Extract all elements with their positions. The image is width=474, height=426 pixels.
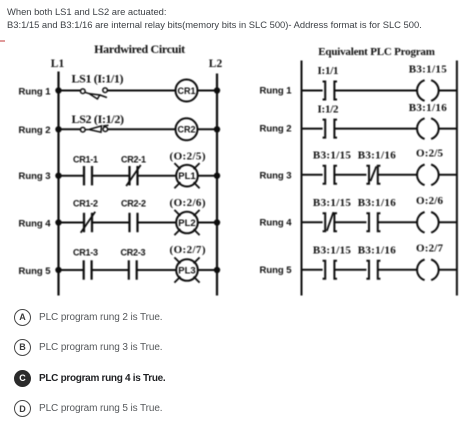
wire rung3 CR2-1 to PL1 xyxy=(138,175,177,177)
label I:1/1 xyxy=(318,65,339,77)
rung 5 label left xyxy=(19,266,52,277)
XIO contact B3:1/16 rung3 xyxy=(366,166,380,184)
limit switch LS1 xyxy=(81,88,108,99)
wire rung5 L1 to CR1-3 xyxy=(59,269,84,271)
title Hardwired Circuit xyxy=(94,42,185,56)
svg-text:B3:1/16: B3:1/16 xyxy=(358,150,397,162)
svg-text:I:1/2: I:1/2 xyxy=(318,104,340,116)
wire plc rung4 coil to rail xyxy=(439,221,457,223)
svg-text:B3:1/15: B3:1/15 xyxy=(313,150,352,162)
XIC contact B3:1/16 rung4 xyxy=(366,213,380,231)
wire rung3 PL1 to L2 xyxy=(198,175,217,177)
wire rung2 CR2 to L2 xyxy=(198,128,217,130)
XIO contact B3:1/15 rung4 xyxy=(323,212,337,231)
wire plc rung5 coil to rail xyxy=(439,269,457,271)
wire rung5 CR2-3 to PL3 xyxy=(137,269,177,271)
wire plc rung1 contact to coil xyxy=(334,90,417,92)
limit switch LS2 xyxy=(81,125,109,132)
wire rung4 L1 to CR1-2 xyxy=(59,222,85,224)
wire rung2 LS2 to CR2 xyxy=(108,128,176,130)
svg-text:Rung 5: Rung 5 xyxy=(19,266,52,277)
label B3:1/15 rung1 xyxy=(409,64,448,76)
wire plc rung4 contact1 to contact2 xyxy=(334,221,366,223)
junction dots rail L2 xyxy=(214,87,220,273)
label contact CR1-2 xyxy=(73,199,98,209)
svg-text:B3:1/16: B3:1/16 xyxy=(358,197,397,209)
contact CR2-1 NC xyxy=(126,165,141,186)
label B3:1/16 rung3 xyxy=(358,150,397,162)
rung 1 label left xyxy=(19,87,52,98)
XIC contact B3:1/15 rung3 xyxy=(323,166,337,184)
wire rung5 CR1-3 to CR2-3 xyxy=(92,269,129,271)
label O:2/5 xyxy=(416,148,444,160)
svg-text:B3:1/16: B3:1/16 xyxy=(358,245,397,257)
contact CR1-2 NC xyxy=(81,212,96,233)
svg-text:O:2/5: O:2/5 xyxy=(416,148,444,160)
wire plc rung5 contact2 to coil xyxy=(378,269,417,271)
wire rung4 CR1-2 to CR2-2 xyxy=(92,222,130,224)
svg-text:Rung 2: Rung 2 xyxy=(19,125,51,136)
wire rung3 CR1-1 to CR2-1 xyxy=(92,175,130,177)
svg-text:Equivalent PLC Program: Equivalent PLC Program xyxy=(318,46,434,58)
svg-text:(O:2/5): (O:2/5) xyxy=(170,150,206,162)
svg-text:CR2-2: CR2-2 xyxy=(121,199,146,209)
svg-text:CR1-3: CR1-3 xyxy=(73,248,98,258)
label B3:1/15 rung5 xyxy=(313,245,352,257)
svg-text:L1: L1 xyxy=(51,58,65,70)
wire plc rung5 rail to contact1 xyxy=(302,269,323,271)
label O:2/6 xyxy=(416,195,444,207)
relay coil CR1 xyxy=(176,80,198,102)
label B3:1/15 rung3 xyxy=(313,150,352,162)
svg-text:Rung 2: Rung 2 xyxy=(260,124,292,135)
PLC left rail xyxy=(301,61,303,296)
rung 3 label left xyxy=(19,171,51,182)
wire plc rung3 coil to rail xyxy=(439,174,457,176)
svg-text:L2: L2 xyxy=(209,58,223,70)
wire rung5 PL3 to L2 xyxy=(198,269,217,271)
wire plc rung3 contact2 to coil xyxy=(378,174,417,176)
XIC contact I:1/2 xyxy=(323,120,337,138)
label B3:1/15 rung4 xyxy=(313,197,352,209)
contact CR1-1 NO xyxy=(84,166,92,185)
label (O:2/5) xyxy=(170,150,206,162)
wire rung1 CR1 to L2 xyxy=(198,90,217,92)
output coil O:2/6 xyxy=(417,212,439,233)
XIC contact I:1/1 xyxy=(323,82,337,100)
wire plc rung5 contact1 to contact2 xyxy=(334,269,366,271)
rung 1 label right xyxy=(260,86,293,97)
wire plc rung2 coil to rail xyxy=(439,128,457,130)
wire rung1 L1 to LS1 xyxy=(59,90,82,92)
label B3:1/16 rung5 xyxy=(358,245,397,257)
label contact CR2-3 xyxy=(121,248,146,258)
output coil B3:1/16 xyxy=(417,118,439,139)
XIC contact B3:1/16 rung5 xyxy=(366,261,380,279)
rung 2 label right xyxy=(260,124,292,135)
wire rung4 PL2 to L2 xyxy=(198,222,217,224)
wire rung2 L1 to LS2 xyxy=(59,128,82,130)
svg-text:I:1/1: I:1/1 xyxy=(318,65,339,77)
wire plc rung4 contact2 to coil xyxy=(378,221,417,223)
svg-text:O:2/6: O:2/6 xyxy=(416,195,444,207)
contact CR2-2 NO xyxy=(130,213,138,232)
svg-text:CR1-1: CR1-1 xyxy=(73,155,98,165)
power rail L1 xyxy=(57,72,59,296)
svg-text:(O:2/7): (O:2/7) xyxy=(170,244,206,256)
svg-text:LS1 (I:1/1): LS1 (I:1/1) xyxy=(72,71,124,85)
wire rung3 L1 to CR1-1 xyxy=(59,175,85,177)
relay coil CR2 xyxy=(176,118,198,140)
svg-text:Hardwired Circuit: Hardwired Circuit xyxy=(94,42,185,56)
wire rung4 CR2-2 to PL2 xyxy=(138,222,177,224)
wire plc rung2 contact to coil xyxy=(334,128,417,130)
junction dots rail L1 xyxy=(55,87,61,273)
PLC right rail xyxy=(456,61,458,296)
label contact CR2-1 xyxy=(121,155,146,165)
svg-text:B3:1/15: B3:1/15 xyxy=(313,245,352,257)
rung 4 label right xyxy=(260,217,293,228)
svg-text:Rung 1: Rung 1 xyxy=(19,87,52,98)
svg-text:B3:1/15: B3:1/15 xyxy=(313,197,352,209)
pilot light PL1 xyxy=(174,163,199,188)
wire plc rung2 rail to contact xyxy=(302,128,323,130)
svg-text:Rung 3: Rung 3 xyxy=(19,171,51,182)
output coil O:2/5 xyxy=(417,165,439,186)
label contact CR1-3 xyxy=(73,248,98,258)
XIC contact B3:1/15 rung5 xyxy=(323,261,337,279)
label L2 xyxy=(209,58,223,70)
svg-text:Rung 4: Rung 4 xyxy=(260,217,293,228)
rung 3 label right xyxy=(260,171,292,182)
output coil O:2/7 xyxy=(417,260,439,281)
svg-text:CR2: CR2 xyxy=(177,125,195,135)
wire plc rung4 rail to contact1 xyxy=(302,221,323,223)
svg-text:Rung 4: Rung 4 xyxy=(19,219,52,230)
svg-text:(O:2/6): (O:2/6) xyxy=(170,197,206,209)
svg-text:CR1-2: CR1-2 xyxy=(73,199,98,209)
svg-text:Rung 1: Rung 1 xyxy=(260,86,293,97)
label contact CR1-1 xyxy=(73,155,98,165)
contact CR1-3 NO xyxy=(84,260,92,279)
svg-text:B3:1/15: B3:1/15 xyxy=(409,64,448,76)
rung 2 label left xyxy=(19,125,51,136)
title Equivalent PLC Program xyxy=(318,46,434,58)
label (O:2/6) xyxy=(170,197,206,209)
label B3:1/16 rung4 xyxy=(358,197,397,209)
svg-text:PL3: PL3 xyxy=(178,266,195,277)
label LS2 (I:1/2) xyxy=(72,112,125,126)
red artifact line xyxy=(0,40,5,42)
contact CR2-3 NO xyxy=(129,260,137,279)
label O:2/7 xyxy=(416,243,444,255)
svg-text:CR2-3: CR2-3 xyxy=(121,248,146,258)
svg-text:B3:1/16: B3:1/16 xyxy=(409,102,448,114)
svg-text:PL1: PL1 xyxy=(178,171,196,182)
wire plc rung3 rail to contact1 xyxy=(302,174,323,176)
output coil B3:1/15 xyxy=(417,80,439,101)
svg-text:CR2-1: CR2-1 xyxy=(121,155,146,165)
wire plc rung3 contact1 to contact2 xyxy=(334,174,366,176)
label LS1 (I:1/1) xyxy=(72,71,124,85)
svg-text:Rung 3: Rung 3 xyxy=(260,171,292,182)
wire plc rung1 coil to rail xyxy=(439,90,457,92)
pilot light PL3 xyxy=(174,257,199,282)
svg-text:Rung 5: Rung 5 xyxy=(260,265,293,276)
rung 5 label right xyxy=(260,265,293,276)
svg-text:PL2: PL2 xyxy=(178,218,195,229)
label (O:2/7) xyxy=(170,244,206,256)
label L1 xyxy=(51,58,65,70)
label I:1/2 xyxy=(318,104,340,116)
power rail L2 xyxy=(216,74,218,296)
svg-text:CR1: CR1 xyxy=(177,86,195,96)
label contact CR2-2 xyxy=(121,199,146,209)
pilot light PL2 xyxy=(174,210,199,235)
rung 4 label left xyxy=(19,219,52,230)
svg-text:O:2/7: O:2/7 xyxy=(416,243,444,255)
svg-text:LS2 (I:1/2): LS2 (I:1/2) xyxy=(72,112,125,126)
wire plc rung1 rail to contact xyxy=(302,90,323,92)
wire rung1 LS1 to CR1 xyxy=(107,90,175,92)
label B3:1/16 rung2 xyxy=(409,102,448,114)
